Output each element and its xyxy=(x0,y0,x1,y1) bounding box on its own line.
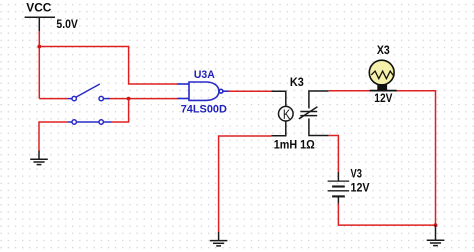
lamp X3 xyxy=(369,60,396,90)
wire lamp right side down to junction xyxy=(397,91,436,225)
svg-text:74LS00D: 74LS00D xyxy=(181,104,227,116)
svg-text:5.0V: 5.0V xyxy=(56,17,78,31)
svg-text:1mH 1Ω: 1mH 1Ω xyxy=(274,137,315,151)
svg-text:X3: X3 xyxy=(377,43,390,57)
switch S2 (closed) xyxy=(68,120,112,124)
wire gate output to relay coil xyxy=(229,90,272,92)
wire switch S2 right to junction xyxy=(112,99,129,122)
relay contact K3 xyxy=(299,91,329,136)
wire battery bottom to junction xyxy=(338,204,435,226)
svg-text:U3A: U3A xyxy=(194,69,215,81)
switch S1 (open) xyxy=(68,84,110,101)
wire coil bottom to ground xyxy=(219,136,272,232)
wire contact top to lamp xyxy=(329,90,370,92)
junction gate input B xyxy=(127,97,131,101)
wire VCC top run to gate input A xyxy=(39,47,177,85)
svg-text:12V: 12V xyxy=(374,91,392,105)
ground (right, below junction) xyxy=(435,225,437,240)
wire switch S1 output to gate input B xyxy=(110,98,177,100)
svg-text:K: K xyxy=(283,106,291,122)
ground (left, below S2) xyxy=(38,151,40,160)
junction VCC xyxy=(37,45,41,49)
svg-text:12V: 12V xyxy=(351,181,370,195)
wire contact bottom to battery xyxy=(329,136,339,173)
relay coil K3 xyxy=(271,91,293,136)
wire switch S2 left to ground xyxy=(39,122,68,151)
op-amp U3A NAND gate body xyxy=(177,82,229,100)
svg-text:V3: V3 xyxy=(351,167,363,181)
VCC power symbol xyxy=(25,17,55,31)
junction bottom right xyxy=(434,223,438,227)
battery V3 xyxy=(328,172,350,204)
ground (middle, below coil) xyxy=(218,232,220,241)
svg-text:VCC: VCC xyxy=(26,1,51,15)
wire switch S1 left stub xyxy=(39,98,68,100)
svg-text:K3: K3 xyxy=(290,75,304,89)
wire VCC vertical to switches xyxy=(38,31,40,99)
